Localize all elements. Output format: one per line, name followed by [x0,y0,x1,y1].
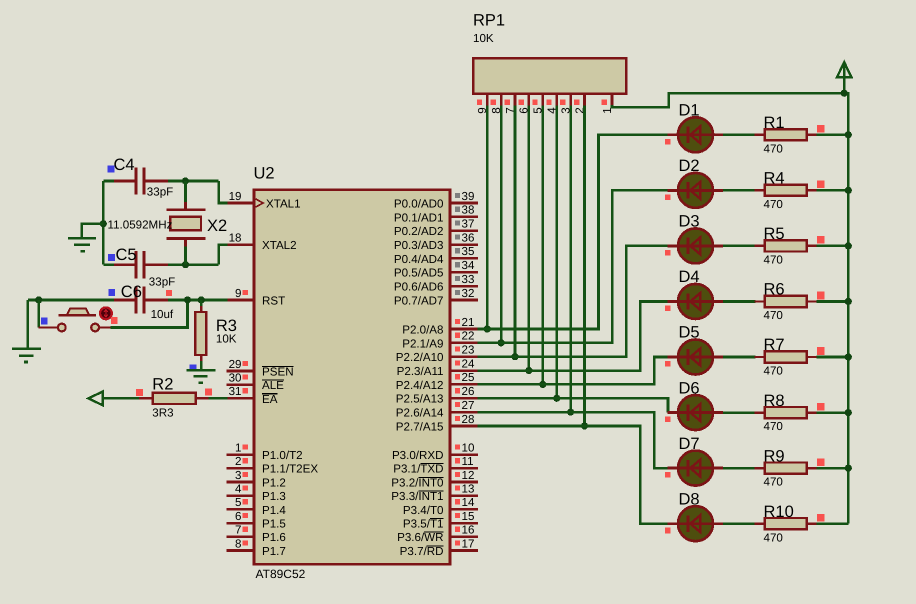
wire RP1 pin 9 to P2.0 [486,106,489,330]
svg-text:10uf: 10uf [151,308,174,321]
svg-text:RST: RST [262,294,285,307]
wire D1 to R1 [723,134,756,137]
pin 29 PSEN [227,370,255,373]
svg-text:R9: R9 [764,447,785,465]
terminal marker D3 (red square) [665,250,671,256]
pin 10 P3.0/RXD [450,453,478,456]
svg-text:XTAL1: XTAL1 [266,197,301,210]
resistor R3 [200,300,203,307]
LED D5 [668,356,679,359]
pin 39 P0.0/AD0 [450,202,478,205]
svg-text:R10: R10 [764,503,794,521]
pin 30 ALE [227,383,255,386]
svg-text:P2.0/A8: P2.0/A8 [402,323,443,336]
junction dot VCC rail [845,187,852,194]
svg-text:D7: D7 [679,435,700,453]
wire to ground (reset) [27,300,30,348]
svg-text:21: 21 [462,316,475,329]
wire P2.5 to D6 [478,398,669,412]
svg-text:P0.3/AD3: P0.3/AD3 [394,239,444,252]
svg-text:P3.0/RXD: P3.0/RXD [392,449,444,462]
capacitor C5 [114,263,135,266]
RP1 pin 8 [500,94,503,106]
svg-text:P0.5/AD5: P0.5/AD5 [394,267,444,280]
terminal marker C6 right (red square) [166,290,172,296]
svg-text:38: 38 [462,204,475,217]
wire X2 top [184,181,187,203]
wire C5 row [103,263,114,266]
pin 18 XTAL2 [227,243,255,246]
terminal marker D8 (red square) [665,528,671,534]
terminal marker R2 right (red square) [205,388,212,395]
RP1 pin 5 [541,94,544,106]
svg-text:P3.6/WR: P3.6/WR [397,531,443,544]
terminal marker D1 (red square) [665,139,671,145]
terminal marker D2 (red square) [665,194,671,200]
svg-text:34: 34 [462,259,475,272]
svg-text:AT89C52: AT89C52 [256,567,306,581]
svg-text:P1.5: P1.5 [262,518,286,531]
svg-text:R4: R4 [764,170,785,188]
svg-text:P2.1/A9: P2.1/A9 [402,337,443,350]
svg-text:D2: D2 [679,157,700,175]
terminal marker D6 (red square) [665,417,671,423]
pin 6 P1.5 [227,522,255,525]
pin 36 P0.3/AD3 [450,243,478,246]
wire P2.0 to D1 [478,135,668,329]
wire D2 to R4 [723,189,756,192]
pin 22 P2.1/A9 [450,342,478,345]
svg-text:2: 2 [235,455,241,468]
pin 2 P1.1/T2EX [227,467,255,470]
svg-text:P2.7/A15: P2.7/A15 [396,420,444,433]
capacitor C6 [114,299,135,302]
svg-text:25: 25 [462,371,475,384]
pin 26 P2.5/A13 [450,397,478,400]
svg-text:33: 33 [462,273,475,286]
junction dot button/RST [184,296,191,303]
svg-text:P0.6/AD6: P0.6/AD6 [394,281,444,294]
wire R4 to VCC rail [817,189,849,192]
pin 9 RST [227,299,255,302]
svg-text:13: 13 [462,483,475,496]
ground (crystal) [68,237,96,240]
wire P2.2 to D3 [478,246,668,357]
resistor R1 [755,134,766,136]
pin 13 P3.3/INT1 [450,494,478,497]
svg-text:10K: 10K [216,333,237,346]
svg-text:16: 16 [462,524,475,537]
terminal marker R1 right (red square) [817,125,825,133]
svg-text:15: 15 [462,510,475,523]
svg-text:P2.6/A14: P2.6/A14 [396,407,444,420]
svg-text:31: 31 [229,385,242,398]
svg-text:4: 4 [235,483,242,496]
resistor R8 [755,411,766,413]
svg-text:P3.4/T0: P3.4/T0 [403,504,444,517]
svg-text:ALE: ALE [262,379,284,392]
svg-text:P3.1/TXD: P3.1/TXD [393,463,443,476]
wire RP1 pin 5 to P2.4 [541,106,544,385]
power terminal VCC arrow [843,64,845,93]
pin 11 P3.1/TXD [450,467,478,470]
pin 17 P3.7/RD [450,549,478,552]
crystal X2 [184,202,187,210]
LED D6 [668,411,679,414]
svg-text:P2.5/A13: P2.5/A13 [396,393,444,406]
wire R6 to VCC rail [817,300,849,303]
svg-text:36: 36 [462,231,475,244]
LED D4 [668,300,679,303]
svg-text:1: 1 [235,441,241,454]
wire R5 to VCC rail [817,245,849,248]
resistor pack RP1 body [473,58,626,93]
wire C4 left to C5 left (vertical) [102,181,105,265]
wire arrow to R2 [102,397,140,400]
RP1 pin 3 [569,94,572,106]
junction dot VCC [841,90,848,97]
origin marker button (blue square) [41,318,48,325]
svg-text:R6: R6 [764,281,785,299]
origin marker C4 (blue square) [107,166,114,173]
svg-text:30: 30 [229,372,242,385]
svg-text:R5: R5 [764,225,785,243]
capacitor C4 [114,180,135,183]
pin 12 P3.2/INT0 [450,481,478,484]
wire R9 to VCC rail [817,467,849,470]
wire P2.7 to D8 [478,426,668,524]
svg-text:P3.5/T1: P3.5/T1 [403,518,444,531]
wire RP1 pin 4 to P2.5 [555,106,558,399]
svg-text:P1.3: P1.3 [262,490,286,503]
wire P2.4 to D5 [478,357,668,384]
svg-text:27: 27 [462,399,475,412]
pin 37 P0.2/AD2 [450,229,478,232]
terminal marker R5 right (red square) [817,236,825,244]
svg-text:470: 470 [764,476,783,489]
svg-text:R8: R8 [764,392,785,410]
wire D3 to R5 [723,245,756,248]
terminal marker R2 left (red square) [136,389,143,396]
pin 24 P2.3/A11 [450,369,478,372]
svg-text:P2.2/A10: P2.2/A10 [396,351,444,364]
wire X2 bottom [184,246,187,265]
wire R3 to ground [200,361,203,370]
svg-text:P1.4: P1.4 [262,504,286,517]
RP1 pin 1 [611,94,614,106]
wire to ground (crystal) [100,220,107,227]
svg-text:R1: R1 [764,114,785,132]
LED D7 [668,467,679,470]
ground (R3) [187,369,216,372]
pin 31 EA [227,397,255,400]
svg-text:U2: U2 [254,165,275,183]
push button [39,326,59,328]
pin 32 P0.7/AD7 [450,299,478,302]
terminal marker D5 (red square) [665,361,671,367]
svg-text:28: 28 [462,413,475,426]
svg-text:P3.3/INT1: P3.3/INT1 [391,490,443,503]
svg-text:10K: 10K [473,32,494,45]
pin 16 P3.6/WR [450,535,478,538]
terminal marker R7 right (red square) [817,347,825,355]
svg-text:7: 7 [235,524,241,537]
RP1 pin 7 [514,94,517,106]
terminal marker R8 right (red square) [817,403,825,411]
svg-text:33pF: 33pF [147,186,173,199]
pin 35 P0.4/AD4 [450,257,478,260]
wire D4 to R6 [723,300,756,303]
svg-text:14: 14 [462,496,475,509]
LED D2 [668,189,679,192]
svg-text:470: 470 [764,309,783,322]
resistor R10 [755,522,766,524]
origin marker R3 ground (blue square) [190,365,197,372]
junction dot VCC rail [845,298,852,305]
svg-text:C6: C6 [121,283,142,301]
pin 38 P0.1/AD1 [450,216,478,219]
resistor R7 [755,356,766,358]
pin 1 P1.0/T2 [227,453,255,456]
svg-text:X2: X2 [207,217,227,235]
svg-text:R2: R2 [152,376,173,394]
wire RP1 pin 6 to P2.3 [528,106,531,371]
svg-text:32: 32 [462,287,475,300]
terminal arrow (EA input) [88,392,102,406]
wire button right to RST row [111,300,188,328]
svg-text:19: 19 [229,190,242,203]
svg-text:39: 39 [462,190,475,203]
svg-text:D6: D6 [679,379,700,397]
pin 28 P2.7/A15 [450,425,478,428]
svg-text:8: 8 [235,537,241,550]
RP1 pin 2 [583,94,586,106]
svg-text:EA: EA [262,393,278,406]
wire P2.1 to D2 [478,190,668,343]
resistor R4 [755,189,766,191]
svg-text:P1.2: P1.2 [262,476,286,489]
wire RP1 pin 3 to P2.6 [569,106,572,413]
wire RP1 pin 2 to P2.7 [583,106,586,426]
svg-text:C4: C4 [114,156,135,174]
svg-text:5: 5 [235,496,241,509]
wire R10 to VCC rail [817,522,849,525]
svg-text:470: 470 [764,420,783,433]
terminal marker R10 right (red square) [817,514,825,522]
pin 21 P2.0/A8 [450,328,478,331]
svg-text:P0.4/AD4: P0.4/AD4 [394,253,444,266]
junction dot VCC rail [845,242,852,249]
svg-text:29: 29 [229,358,242,371]
pin 34 P0.5/AD5 [450,271,478,274]
svg-text:PSEN: PSEN [262,365,294,378]
junction node C4/X2 [168,180,219,183]
resistor R6 [755,300,766,302]
LED D1 [668,133,679,136]
svg-text:18: 18 [229,231,242,244]
svg-text:10: 10 [462,441,475,454]
LED D3 [668,244,679,247]
svg-text:P0.2/AD2: P0.2/AD2 [394,225,444,238]
svg-text:P0.1/AD1: P0.1/AD1 [394,211,444,224]
button operate indicator [100,307,112,319]
svg-text:470: 470 [764,365,783,378]
svg-text:3: 3 [235,469,241,482]
svg-text:RP1: RP1 [473,12,505,30]
svg-text:470: 470 [764,142,783,155]
pin 3 P1.2 [227,481,255,484]
junction dot VCC rail [845,409,852,416]
wire R8 to VCC rail [817,411,849,414]
terminal marker button right (red square) [111,317,118,324]
svg-text:P3.2/INT0: P3.2/INT0 [391,476,443,489]
svg-text:XTAL2: XTAL2 [262,239,297,252]
svg-text:P1.1/T2EX: P1.1/T2EX [262,463,318,476]
svg-text:R7: R7 [764,336,785,354]
svg-text:11: 11 [462,455,474,468]
svg-text:P2.4/A12: P2.4/A12 [396,379,444,392]
svg-text:26: 26 [462,385,475,398]
junction dot VCC rail [845,465,852,472]
wire P2.3 to D4 [478,301,668,370]
svg-text:11.0592MHz: 11.0592MHz [108,219,173,232]
terminal marker R9 right (red square) [817,458,825,466]
svg-text:D5: D5 [679,324,700,342]
terminal marker D7 (red square) [665,472,671,478]
svg-text:P0.7/AD7: P0.7/AD7 [394,294,444,307]
ground (reset) [12,347,41,350]
junction dot VCC rail [845,353,852,360]
svg-text:33pF: 33pF [149,275,175,288]
origin marker C6 (blue square) [108,289,115,296]
wire RP1 pin 8 to P2.1 [500,106,503,343]
wire C5 to XTAL2 pin18 [219,245,228,265]
junction node C5/X2 [182,261,189,268]
pin 8 P1.7 [227,549,255,552]
pin 27 P2.6/A14 [450,411,478,414]
pin 23 P2.2/A10 [450,355,478,358]
svg-text:P3.7/RD: P3.7/RD [400,545,444,558]
svg-text:24: 24 [462,357,475,370]
chip U2 body [254,190,450,565]
wire D5 to R7 [723,356,756,359]
svg-text:P1.0/T2: P1.0/T2 [262,449,303,462]
LED D8 [668,522,679,525]
RP1 pin 4 [555,94,558,106]
svg-text:P2.3/A11: P2.3/A11 [397,365,444,378]
wire C4 to XTAL1 pin19 [219,181,228,203]
pin 14 P3.4/T0 [450,508,478,511]
wire R2 to pin31 [209,397,228,400]
svg-text:9: 9 [235,287,241,300]
svg-text:6: 6 [235,510,241,523]
wire D6 to R8 [723,411,756,414]
pin 19 XTAL1 [227,202,255,205]
svg-text:C5: C5 [116,246,137,264]
svg-text:D3: D3 [679,213,700,231]
junction node R3/RST [198,296,205,303]
svg-text:35: 35 [462,245,475,258]
pin 15 P3.5/T1 [450,522,478,525]
resistor R5 [755,245,766,247]
wire C4 row [103,180,114,183]
svg-text:37: 37 [462,218,475,231]
RP1 pin 9 [486,94,489,106]
svg-text:470: 470 [764,198,783,211]
junction dot VCC rail [845,131,852,138]
RP1 pin 6 [528,94,531,106]
svg-text:D1: D1 [679,102,700,120]
svg-text:D4: D4 [679,268,700,286]
wire R7 to VCC rail [817,356,849,359]
terminal marker D4 (red square) [665,305,671,311]
pin 33 P0.6/AD6 [450,285,478,288]
pin 25 P2.4/A12 [450,383,478,386]
svg-text:12: 12 [462,469,475,482]
svg-text:17: 17 [462,537,475,550]
wire D7 to R9 [723,467,756,470]
svg-text:P1.7: P1.7 [262,545,286,558]
wire D8 to R10 [723,522,756,525]
pin 5 P1.4 [227,508,255,511]
terminal marker R6 right (red square) [817,292,825,300]
svg-text:23: 23 [462,344,475,357]
svg-text:3R3: 3R3 [152,407,173,420]
pin 7 P1.6 [227,535,255,538]
wire RP1 pin 7 to P2.2 [514,106,517,357]
pin 4 P1.3 [227,494,255,497]
svg-text:470: 470 [764,531,783,544]
svg-text:D8: D8 [679,490,700,508]
origin marker C5 (blue square) [108,254,115,261]
junction node button/RST [35,296,42,303]
svg-text:P1.6: P1.6 [262,531,286,544]
wire R1 to VCC rail [817,134,849,137]
svg-text:P0.0/AD0: P0.0/AD0 [394,197,444,210]
terminal marker R4 right (red square) [817,181,825,189]
wire P2.6 to D7 [478,412,668,468]
wire RST row [28,299,115,302]
wire button left vertical [37,300,40,328]
resistor R9 [755,467,766,469]
svg-text:470: 470 [764,254,783,267]
resistor R2 [139,397,154,399]
svg-text:22: 22 [462,330,475,343]
wire RP1 pin1 to VCC rail [612,93,848,523]
